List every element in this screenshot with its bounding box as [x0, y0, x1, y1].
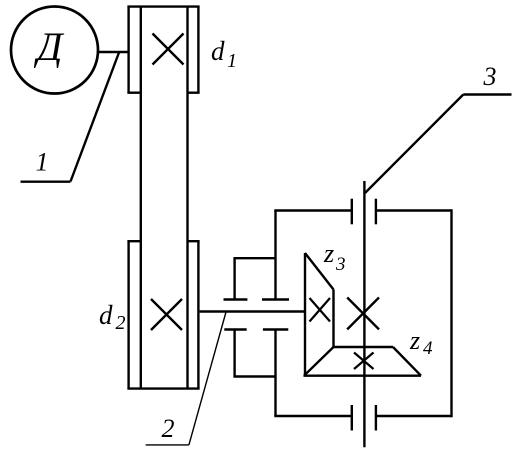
- svg-text:2: 2: [162, 414, 175, 443]
- svg-text:4: 4: [423, 338, 433, 359]
- leader line 3: [365, 95, 512, 194]
- svg-text:1: 1: [227, 50, 237, 72]
- svg-text:1: 1: [36, 148, 49, 177]
- belt line right: [186, 7, 188, 389]
- leader line 2: [146, 312, 226, 445]
- coupling lower half: [224, 330, 288, 377]
- motor circle Д: [11, 7, 98, 94]
- leader line 1: [21, 53, 120, 182]
- svg-text:d: d: [99, 300, 113, 330]
- belt line left: [140, 7, 142, 389]
- pulley d1: [127, 7, 199, 93]
- svg-text:z: z: [323, 239, 334, 268]
- coupling upper half: [224, 258, 290, 299]
- svg-text:Д: Д: [33, 24, 65, 69]
- X mark on vertical shaft: [347, 298, 379, 330]
- shaft d2 to gearbox: [200, 310, 305, 312]
- X mark on z4: [354, 353, 374, 370]
- X mark pulley d2: [151, 299, 182, 330]
- svg-text:2: 2: [116, 312, 126, 334]
- svg-text:3: 3: [483, 62, 497, 91]
- pulley d2: [127, 241, 199, 388]
- svg-text:d: d: [211, 36, 225, 66]
- svg-text:z: z: [409, 326, 420, 355]
- bearing top: [352, 199, 376, 225]
- bevel gear z3: [305, 253, 334, 377]
- bevel gear z4: [304, 347, 422, 376]
- svg-text:3: 3: [335, 254, 346, 275]
- motor shaft: [97, 51, 129, 54]
- bearing bottom: [352, 405, 376, 431]
- X mark pulley d1: [153, 34, 184, 65]
- vertical shaft 3: [363, 181, 365, 447]
- gearbox housing: [274, 209, 451, 417]
- X mark on shaft in z3: [310, 298, 331, 322]
